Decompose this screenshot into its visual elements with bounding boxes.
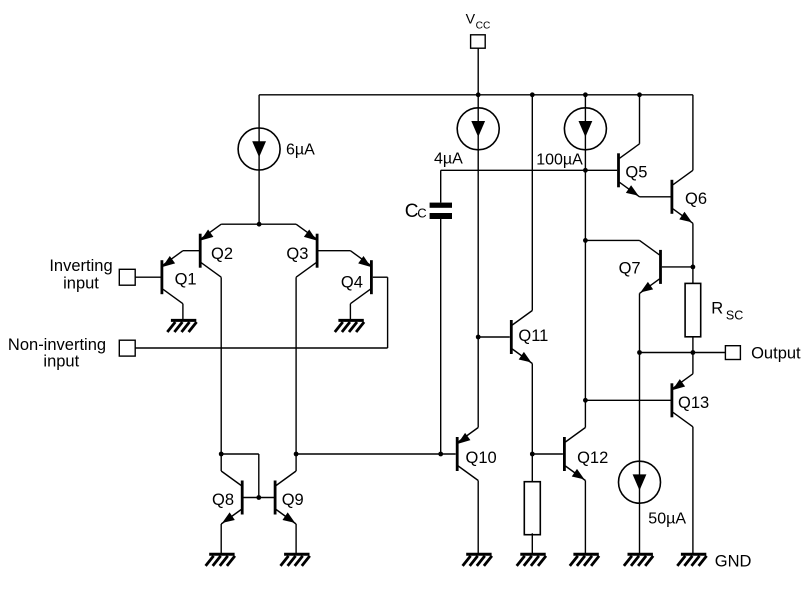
wire bus to 100uA	[584, 95, 586, 108]
wire Q8 diode jog horizontal	[221, 453, 259, 455]
svg-text:Q12: Q12	[577, 449, 608, 467]
resistor Rsc	[685, 283, 743, 336]
wire Q2 base lead	[183, 250, 199, 252]
svg-text:Non-inverting: Non-inverting	[8, 336, 106, 354]
wire Rsc to output node	[692, 337, 694, 353]
wire Q8 emitter drop	[220, 524, 222, 553]
wire output rail	[640, 352, 726, 354]
wire Q9 emitter drop	[295, 524, 297, 553]
wire top supply bus	[259, 94, 693, 96]
svg-text:CC: CC	[476, 20, 491, 31]
node junction Q5 base rail	[583, 168, 588, 173]
node junction Q2 collector Q8	[219, 452, 224, 457]
svg-text:Q6: Q6	[685, 190, 707, 208]
current source 6uA	[238, 128, 315, 170]
svg-text:Output: Output	[751, 345, 801, 363]
svg-text:input: input	[63, 274, 99, 292]
svg-text:Q3: Q3	[286, 245, 308, 263]
wire non-inverting input	[135, 347, 387, 349]
node junction bus Q11	[530, 92, 535, 97]
ground under 50uA	[624, 554, 653, 566]
svg-text:100µA: 100µA	[536, 151, 583, 168]
wire 6uA to input pair	[258, 169, 260, 224]
wire inverting input to Q1 base	[135, 276, 160, 278]
node Inverting input square	[119, 269, 135, 285]
wire first stage output to Q10 base	[296, 453, 456, 455]
node junction Q11 base tap	[476, 335, 481, 340]
node junction output Rsc	[691, 350, 696, 355]
node Output square	[725, 346, 740, 360]
wire Q8 diode jog vertical	[258, 454, 260, 498]
transistor Q9	[275, 471, 304, 524]
ground under Q12	[570, 554, 599, 566]
svg-text:C: C	[417, 206, 426, 221]
ground under R1	[517, 554, 546, 566]
wire Q1 collector drop	[182, 304, 184, 320]
wire Q5 collector to bus	[639, 95, 641, 144]
capacitor Cc	[405, 201, 452, 222]
wire 50uA to ground	[639, 503, 641, 553]
current source 100uA	[536, 108, 606, 169]
transistor Q12	[564, 428, 608, 481]
ground under Q4	[335, 320, 364, 332]
wire Q8 Q9 base link	[242, 497, 275, 499]
transistor Q4	[341, 251, 372, 304]
svg-text:Q7: Q7	[619, 260, 641, 278]
transistor Q11	[511, 311, 548, 364]
transistor Q8	[212, 471, 242, 524]
svg-text:V: V	[466, 11, 476, 27]
svg-text:4µA: 4µA	[434, 151, 463, 168]
wire Q7 base lead	[662, 266, 693, 268]
wire Q5 emitter to Q6 base	[640, 196, 671, 198]
transistor Q5	[619, 144, 648, 197]
wire Q6 emitter to Rsc	[692, 223, 694, 283]
wire Cc bottom lead	[440, 219, 442, 454]
wire Q13 emitter up	[692, 353, 694, 374]
svg-text:SC: SC	[726, 309, 743, 323]
wire R1 to ground	[531, 533, 533, 553]
transistor Q13	[672, 374, 709, 427]
node junction 6uA rail	[257, 222, 262, 227]
wire Q7 emitter down to 50uA	[639, 293, 641, 461]
ground under Q13	[677, 554, 706, 566]
node junction bus Q5	[637, 92, 642, 97]
ground under Q1	[167, 320, 196, 332]
wire Q13 base lead	[585, 399, 670, 401]
wire Q2 collector vertical	[220, 277, 222, 471]
node junction bus 100uA	[583, 92, 588, 97]
wire Cc top lead	[440, 170, 442, 202]
svg-text:6µA: 6µA	[286, 141, 315, 158]
wire Q12 base lead	[532, 453, 563, 455]
wire Q12 emitter drop	[584, 481, 586, 554]
wire 100uA down to Q12 collector	[584, 150, 586, 428]
node junction Cc bottom	[438, 452, 443, 457]
node Vcc terminal square	[471, 35, 486, 48]
svg-text:Q4: Q4	[341, 274, 363, 292]
node junction Q7 base Q6 emitter	[691, 265, 696, 270]
wire Q11 emitter down	[531, 364, 533, 482]
svg-text:Q8: Q8	[212, 491, 234, 509]
wire Q13 collector drop	[692, 427, 694, 553]
svg-text:50µA: 50µA	[648, 511, 686, 528]
wire Q11 collector to bus	[531, 95, 533, 311]
wire emitter rail Q2 Q3	[221, 223, 296, 225]
node junction Q8 Q9 bases	[256, 495, 261, 500]
wire 4uA down to Q10 emitter	[477, 150, 479, 428]
svg-text:Q2: Q2	[211, 245, 233, 263]
node junction Q9 collector	[294, 452, 299, 457]
transistor Q2	[200, 224, 233, 277]
svg-text:Q9: Q9	[282, 491, 304, 509]
resistor R1	[524, 482, 540, 535]
ground under Q8	[206, 554, 235, 566]
wire Vcc drop	[477, 48, 479, 95]
node junction Q12 base tap	[530, 452, 535, 457]
node junction bus Vcc	[476, 92, 481, 97]
ground under Q10	[463, 554, 492, 566]
wire Q11 base lead	[478, 336, 510, 338]
wire Q3 collector vertical	[295, 277, 297, 471]
transistor Q1	[162, 251, 197, 304]
transistor Q10	[457, 428, 496, 481]
svg-text:input: input	[43, 352, 79, 370]
wire Q5 base rail	[441, 169, 617, 171]
svg-text:Q11: Q11	[518, 327, 548, 345]
svg-text:Q13: Q13	[678, 394, 709, 412]
node junction Q7 collector rail	[583, 238, 588, 243]
wire Q4 base vertical	[387, 277, 389, 348]
transistor Q3	[286, 224, 317, 277]
wire bus left drop to 6uA	[258, 95, 260, 128]
svg-text:GND: GND	[715, 553, 752, 571]
ground under Q9	[281, 554, 310, 566]
svg-text:Inverting: Inverting	[49, 257, 112, 275]
wire bus right drop to Q6 collector	[692, 95, 694, 171]
wire Q7 collector rail	[585, 239, 639, 241]
transistor Q7	[619, 240, 661, 293]
current source 50uA	[619, 461, 687, 527]
node Inverting input label	[49, 257, 112, 292]
svg-text:Q5: Q5	[625, 164, 647, 182]
node junction Q13 base rail	[583, 398, 588, 403]
node Vcc terminal label	[466, 11, 491, 31]
node junction output 50uA	[637, 350, 642, 355]
svg-text:Q10: Q10	[466, 449, 497, 467]
transistor Q6	[672, 170, 707, 223]
wire bus to 4uA	[477, 95, 479, 108]
node Non-inverting input square	[119, 340, 135, 356]
wire Q4 base lead	[373, 276, 388, 278]
current source 4uA	[434, 108, 499, 168]
node Non-inverting input label	[8, 336, 106, 370]
svg-text:R: R	[711, 300, 723, 318]
svg-text:Q1: Q1	[175, 271, 197, 289]
wire Q10 collector drop	[477, 481, 479, 554]
wire Q3 base lead	[318, 250, 350, 252]
wire Q4 collector drop	[349, 304, 351, 320]
